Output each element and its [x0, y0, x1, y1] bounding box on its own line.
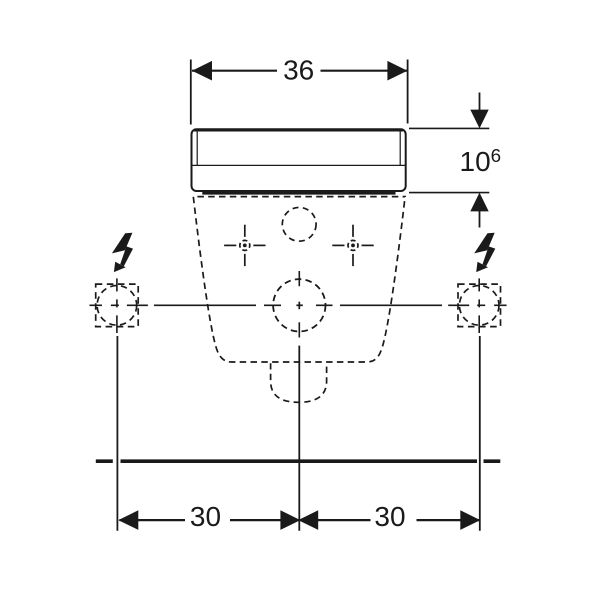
svg-text:30: 30 — [374, 501, 405, 532]
dimension 36 arrow right — [387, 61, 407, 81]
horizontal centerline right of big circle — [316, 304, 442, 306]
flush plate bottom shadow line — [202, 192, 395, 195]
dimension 30 line — [120, 519, 480, 521]
floor line — [96, 459, 501, 463]
water supply big dashed circle — [273, 279, 325, 331]
electrical connection marker right: dashed square — [458, 284, 501, 327]
electrical connection marker right: dashed circle — [459, 286, 499, 326]
horizontal centerline left of big circle — [154, 304, 281, 306]
vertical centerline of big circle — [298, 271, 300, 338]
dimension 36 extension line left — [190, 60, 192, 125]
dimension 30 extension line left — [116, 336, 118, 531]
dimension 10 top extension line — [409, 127, 489, 129]
dimension 30 arrow far left — [118, 510, 138, 530]
dimension 10 bottom extension line — [409, 192, 489, 194]
ceramic bowl dashed outline — [193, 197, 405, 362]
electrical connection marker right: centerlines — [448, 278, 506, 333]
outlet dashed U shape — [271, 363, 327, 402]
electrical connection marker left: centerlines — [90, 278, 148, 333]
flush plate left bevel line — [196, 131, 198, 165]
center vertical line down to dimension — [298, 346, 300, 531]
dimension 36 line — [192, 70, 407, 72]
fixing point marker right — [332, 225, 373, 266]
flush plate outline — [192, 129, 406, 191]
big circle center cross — [296, 302, 302, 310]
flush plate top edge thick — [194, 129, 403, 132]
svg-text:36: 36 — [283, 55, 314, 86]
lightning bolt left — [112, 233, 133, 272]
dimension 30 arrow far right — [460, 510, 480, 530]
electrical connection marker left: dashed square — [96, 284, 139, 327]
dimension 10 up arrow — [470, 193, 488, 228]
electrical connection marker left: dashed circle — [97, 286, 137, 326]
dimension 30 center arrow pointing left — [298, 510, 318, 530]
dimension 36 arrow left — [192, 61, 212, 81]
flush plate right bevel line — [399, 131, 401, 165]
svg-text:30: 30 — [190, 501, 221, 532]
lightning bolt right — [474, 233, 495, 272]
dimension 30 center arrow pointing right — [280, 510, 300, 530]
dimension 10 down arrow — [470, 93, 488, 129]
spray arm opening small dashed circle — [282, 207, 316, 241]
flush plate middle split line — [192, 164, 406, 166]
dimension 30 extension line right — [479, 336, 481, 531]
fixing point marker left — [224, 225, 265, 266]
dimension 36 extension line right — [407, 60, 409, 124]
